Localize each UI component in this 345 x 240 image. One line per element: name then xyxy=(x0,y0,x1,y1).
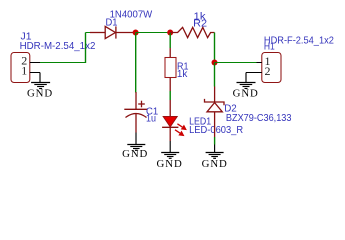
wire node C down to D2 xyxy=(214,63,216,87)
ground (J1 pin1) xyxy=(27,73,53,100)
junction node A xyxy=(133,30,139,36)
svg-text:1: 1 xyxy=(21,64,27,78)
svg-text:2: 2 xyxy=(265,64,271,78)
connector H1 xyxy=(246,53,281,83)
wire R2 to node C xyxy=(214,33,216,63)
wire R1 to LED1 xyxy=(169,91,171,100)
svg-text:LED-0603_R: LED-0603_R xyxy=(189,125,243,136)
svg-text:GND: GND xyxy=(27,88,53,100)
wire riser xyxy=(85,33,87,64)
wire node B down to R1 xyxy=(169,33,171,48)
wire J1.2 to D1 xyxy=(40,62,86,64)
ground (C1) xyxy=(122,133,148,161)
wire D2 to ground xyxy=(214,137,216,145)
ground (LED1) xyxy=(157,141,183,170)
resistor R1 xyxy=(165,48,176,91)
capacitor C1 xyxy=(124,92,147,133)
svg-text:BZX79-C36,133: BZX79-C36,133 xyxy=(226,113,292,124)
svg-text:GND: GND xyxy=(202,158,228,170)
wire A to B xyxy=(136,32,171,34)
wire node A down to C1 xyxy=(135,33,137,93)
wire to D1 xyxy=(86,32,91,34)
junction node C xyxy=(212,60,218,66)
ground (H1 pin2) xyxy=(233,73,259,100)
svg-text:GND: GND xyxy=(233,88,259,100)
svg-text:H1: H1 xyxy=(264,42,275,53)
svg-text:GND: GND xyxy=(157,158,183,170)
diode D1 xyxy=(90,26,136,38)
svg-text:R2: R2 xyxy=(193,19,207,30)
svg-text:D1: D1 xyxy=(106,17,118,28)
wire node C to H1 xyxy=(215,62,257,64)
junction node B xyxy=(167,30,173,36)
connector J1 xyxy=(11,53,40,83)
zener diode D2 xyxy=(205,87,225,138)
svg-text:1u: 1u xyxy=(146,114,156,125)
svg-text:GND: GND xyxy=(122,148,148,160)
LED LED1 xyxy=(162,100,186,141)
svg-text:1k: 1k xyxy=(177,69,188,80)
resistor R2 xyxy=(170,27,214,37)
ground (D2) xyxy=(202,145,228,171)
svg-text:HDR-M-2.54_1x2: HDR-M-2.54_1x2 xyxy=(20,41,96,52)
